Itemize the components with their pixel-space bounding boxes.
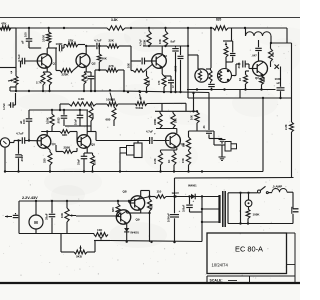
wire [79, 56, 123, 70]
svg-text:220K: 220K [153, 119, 157, 125]
resistor 47K [0, 26, 11, 30]
resistor 220K [148, 28, 150, 31]
resistor 220K Q2 base [60, 69, 73, 73]
svg-text:uF: uF [19, 120, 23, 124]
transformer primary taps [202, 196, 219, 198]
title block [207, 233, 287, 274]
wire [94, 70, 96, 91]
transformer secondary [227, 193, 229, 224]
wire Q5 emitter [86, 148, 88, 153]
svg-text:33uF: 33uF [77, 159, 81, 165]
transistor Q5 [77, 135, 91, 149]
svg-text:2.2V-43V: 2.2V-43V [22, 196, 38, 200]
svg-text:5: 5 [11, 71, 13, 75]
resistor 56K [98, 45, 100, 47]
capacitor e-cluster B [77, 114, 84, 116]
svg-text:100K: 100K [253, 213, 261, 217]
wire wiper [75, 215, 77, 218]
resistor 6K v [188, 131, 190, 137]
wire coupling [64, 44, 66, 46]
capacitor bias [232, 41, 234, 53]
resistor 220K fb [63, 150, 73, 154]
switch [241, 192, 258, 194]
svg-text:680: 680 [106, 118, 111, 122]
title right column [294, 233, 296, 276]
resistor 10K emitter [262, 75, 264, 76]
svg-text:Q9: Q9 [136, 218, 140, 222]
svg-text:+: + [193, 199, 195, 203]
wire Q9 base [118, 216, 121, 217]
wire Q8 base [129, 202, 135, 204]
svg-text:10K: 10K [60, 213, 64, 218]
transistor Q2 [76, 54, 90, 68]
node output rail [187, 89, 276, 91]
capacitor 100P [58, 45, 60, 52]
node ground rail ch2 [5, 171, 264, 173]
svg-text:+: + [154, 132, 156, 136]
node V+ rail channel 2 [29, 109, 88, 111]
transistor Q8 [130, 196, 144, 210]
resistor 22K bias [145, 76, 149, 87]
resistor 3.3K [107, 26, 125, 30]
svg-text:22K: 22K [147, 80, 151, 85]
wire [201, 197, 203, 242]
wire input ch1 [0, 67, 16, 69]
resistor 2.2K [159, 152, 163, 165]
capacitor 4.7uF coupling [86, 45, 96, 47]
wire Q3 emitter [161, 67, 163, 74]
svg-text:Q5: Q5 [91, 143, 95, 147]
wire long drop [262, 98, 264, 172]
transistor Q9 [116, 210, 130, 224]
capacitor 8uF [175, 46, 177, 48]
node motor ground rail [19, 233, 94, 235]
svg-text:.047: .047 [252, 54, 258, 58]
svg-text:Q3: Q3 [163, 54, 167, 58]
plug AC [293, 208, 299, 210]
svg-text:1000uF: 1000uF [167, 213, 171, 222]
svg-text:1K: 1K [91, 115, 95, 118]
svg-text:680: 680 [111, 207, 115, 212]
border frame bottom [0, 282, 300, 284]
wire [15, 28, 17, 76]
wire [94, 241, 96, 253]
wire [206, 68, 211, 70]
transformer winding R [218, 69, 232, 83]
pot 10K speed [66, 201, 68, 208]
svg-text:82K: 82K [62, 133, 68, 137]
svg-text:47: 47 [172, 85, 175, 88]
svg-text:27K: 27K [68, 39, 74, 43]
svg-text:EC 80-A: EC 80-A [235, 245, 263, 254]
resistor 110 [155, 195, 166, 199]
resistor 680 drive [117, 201, 119, 204]
svg-text:.5 AMP: .5 AMP [272, 185, 282, 189]
transistor Q3 [152, 54, 167, 69]
resistor 27K [66, 42, 78, 46]
ground [208, 134, 210, 138]
resistor 2.2K fb [290, 122, 294, 132]
capacitor 33uF Q5 [81, 155, 88, 157]
resistor 10 [245, 71, 247, 75]
wire driver mid [210, 28, 212, 68]
svg-text:10/24/74: 10/24/74 [212, 263, 229, 268]
svg-text:4.7uF: 4.7uF [2, 103, 6, 110]
svg-text:.0033: .0033 [237, 62, 241, 69]
svg-text:3.3K: 3.3K [78, 97, 85, 101]
fuse .5A [268, 192, 272, 194]
resistor 82K [60, 130, 70, 134]
wire node [49, 47, 57, 49]
resistor 680 mid [112, 107, 116, 120]
capacitor 100uF reg [189, 197, 191, 205]
resistor 220K bias [159, 111, 161, 113]
svg-text:33uF: 33uF [45, 213, 49, 220]
svg-text:820: 820 [216, 18, 222, 22]
svg-text:220K: 220K [62, 73, 70, 77]
node ground rail ch1 [10, 90, 120, 92]
svg-text:470: 470 [157, 80, 161, 85]
resistor 15K [186, 151, 190, 165]
pot 50KB [135, 102, 147, 106]
resistor 1K mid [89, 107, 93, 121]
wire [59, 104, 61, 110]
svg-text:10K: 10K [97, 228, 103, 232]
resistor 2K [48, 152, 52, 165]
resistor bypass [48, 72, 52, 85]
svg-text:.0033: .0033 [175, 65, 178, 72]
svg-text:.01: .01 [202, 125, 206, 129]
wire [156, 128, 177, 130]
wire right drop [286, 28, 288, 43]
capacitor .047 tap [258, 40, 260, 47]
wire [15, 85, 17, 91]
wire Q2 emitter [85, 67, 87, 72]
capacitor 4.7uF ch2 input [14, 140, 21, 142]
svg-text:10K: 10K [127, 63, 131, 68]
svg-text:SCALE:: SCALE: [210, 279, 223, 283]
transformer winding L [195, 69, 208, 82]
node 12V rail [19, 200, 130, 202]
capacitor 100uF ch2 [28, 110, 30, 118]
resistor 820 [213, 26, 228, 30]
wire corner [174, 178, 176, 197]
wire bias [231, 28, 233, 41]
wire bias bus [155, 110, 197, 112]
svg-text:Q8: Q8 [123, 190, 127, 194]
wire coupling to Q6 [87, 131, 96, 133]
svg-text:100K: 100K [46, 117, 50, 124]
battery arrow [5, 216, 12, 218]
wire Q4 emitter [47, 148, 50, 150]
capacitor .0022 [17, 139, 19, 141]
resistor 10K Q3 base [133, 69, 145, 73]
capacitor .0033 out [180, 46, 182, 55]
resistor 100K ch2 [51, 110, 53, 114]
border frame top [0, 17, 300, 19]
svg-text:IN4001: IN4001 [188, 184, 197, 188]
wire Q5 collector [86, 110, 88, 135]
resistor Q2 emitter [82, 72, 86, 84]
resistor 1K [172, 152, 176, 165]
motor M [29, 215, 43, 229]
transistor Q7 [253, 61, 268, 76]
svg-text:47K: 47K [1, 22, 7, 26]
svg-text:2.2K: 2.2K [284, 124, 288, 130]
svg-text:uF: uF [277, 81, 281, 85]
diode protection [124, 228, 129, 232]
capacitor .01 [208, 93, 210, 131]
pot 100KB [107, 102, 118, 106]
wire Q1 collector [46, 48, 48, 55]
lamp neon [247, 192, 249, 194]
transistor Q1 [37, 54, 51, 68]
resistor 3.3K [69, 102, 96, 106]
svg-text:.0033: .0033 [57, 117, 61, 124]
resistor 100K lamp [248, 207, 250, 209]
svg-text:Q4: Q4 [52, 142, 56, 146]
wire [271, 42, 292, 44]
resistor 100K [48, 28, 50, 32]
wire [19, 201, 20, 202]
resistor 47K [95, 69, 106, 71]
transformer core [222, 191, 224, 227]
svg-text:1.5K: 1.5K [93, 159, 97, 165]
resistor 27K out [270, 43, 272, 49]
svg-text:8uF: 8uF [171, 40, 176, 44]
resistor 10K [165, 28, 167, 31]
pot 10K h [94, 233, 108, 237]
wire Q5 base [76, 132, 78, 142]
svg-text:M: M [34, 220, 38, 225]
wire collector load node [143, 45, 188, 47]
pot bias [225, 42, 227, 45]
capacitor coupling Q3 base [131, 60, 141, 62]
node V+ rail channel 1 [0, 27, 107, 29]
transformer primary bar [218, 195, 220, 223]
svg-text:Q7: Q7 [255, 76, 259, 80]
capacitor motor [13, 214, 19, 216]
ground 2 [221, 145, 223, 157]
capacitor 4.7uF Q6 input [149, 137, 151, 144]
capacitor 1000uF reg [174, 197, 176, 214]
wire Q4 collector [46, 132, 48, 136]
svg-text:2.7K: 2.7K [36, 81, 42, 85]
wire [65, 125, 80, 127]
node rail mid bottom [110, 241, 202, 242]
svg-text:10: 10 [238, 77, 242, 81]
resistor 10K bias [172, 111, 174, 113]
wire Q8 emitter to Q9 [140, 210, 142, 213]
svg-text:.0022: .0022 [20, 155, 24, 162]
resistor 22K [107, 44, 119, 48]
svg-text:4.7uF: 4.7uF [146, 130, 153, 134]
wire [228, 223, 293, 225]
wire Q3 collector [161, 46, 163, 55]
resistor 2.7K Q1 emitter [41, 72, 45, 85]
wire Q1 emitter [46, 67, 48, 72]
wire Q2 collector [85, 46, 87, 54]
wire [189, 130, 215, 132]
svg-text:+: + [179, 209, 181, 213]
wire mix bus [60, 103, 69, 105]
capacitor 33uF [51, 201, 53, 213]
jack speaker ext [213, 131, 215, 145]
node speaker X [275, 65, 279, 69]
svg-text:100uF: 100uF [183, 204, 186, 212]
wire [13, 141, 15, 143]
wire [130, 46, 132, 61]
resistor 10K v [196, 110, 198, 112]
transistor Q4 [37, 135, 51, 149]
svg-text:5KB: 5KB [76, 255, 82, 259]
jack input ch2 [0, 138, 9, 147]
svg-text:680: 680 [150, 203, 154, 208]
capacitor .0033 ch2 [63, 110, 65, 115]
diode 1N4001 [191, 194, 195, 200]
pot 5KB [61, 251, 74, 253]
svg-text:330: 330 [43, 158, 47, 163]
resistor 470 [162, 76, 166, 87]
wire Q8 collector [140, 191, 142, 197]
wire [239, 90, 241, 99]
capacitor 4.7uF aux [15, 93, 17, 105]
coil output [245, 28, 247, 36]
wire bias rect [161, 103, 163, 111]
jack monitor [134, 143, 142, 158]
wire to Q7 base [232, 75, 237, 77]
resistor 680 reg [149, 197, 151, 200]
wire Q6 emitter [176, 148, 178, 150]
wire Q6 collector [176, 129, 178, 134]
capacitor 1000uF out [280, 67, 282, 87]
svg-text:110: 110 [157, 190, 162, 194]
svg-text:10uF: 10uF [74, 119, 78, 125]
capacitor emitter bypass [88, 75, 95, 77]
capacitor center [208, 83, 215, 85]
svg-text:10K: 10K [262, 77, 266, 82]
capacitor 100uF [28, 28, 30, 38]
resistor 1.5K Q5 [91, 155, 95, 166]
svg-text:4.7uF: 4.7uF [16, 132, 24, 136]
wire [63, 45, 65, 49]
wire Q9 collector [126, 210, 128, 213]
svg-text:3.3K: 3.3K [111, 18, 118, 22]
wire [292, 192, 294, 208]
title scale strip [207, 275, 295, 277]
transformer winding mid [209, 70, 212, 82]
svg-text:220K: 220K [64, 146, 71, 150]
transistor Q6 [166, 133, 181, 148]
capacitor .0033 [242, 61, 244, 68]
capacitor 47uF [168, 79, 174, 81]
wire Q9 emitter [126, 224, 128, 228]
